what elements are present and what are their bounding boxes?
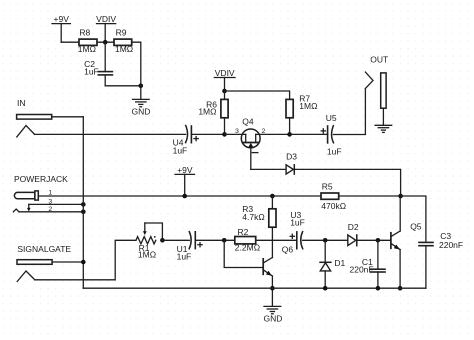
svg-text:220nF: 220nF [350,265,374,275]
jack SIGNALGATE [17,244,71,282]
wire [195,239,235,241]
wire [225,91,290,99]
wire pin3 [29,203,84,205]
capacitor C2 1uF [84,42,112,86]
svg-text:GND: GND [263,314,282,324]
junction [160,238,165,243]
svg-text:R8: R8 [79,28,90,38]
wire [97,41,114,43]
junction [103,40,108,45]
svg-text:POWERJACK: POWERJACK [14,174,68,184]
potentiometer R1 1MΩ [136,223,162,260]
svg-text:2.2MΩ: 2.2MΩ [235,243,260,253]
resistor R9 1MΩ [114,28,133,55]
svg-text:1uF: 1uF [84,67,99,77]
resistor R8 1MΩ [78,28,97,55]
junction [81,260,86,265]
jack OUT [365,54,388,124]
capacitor U4 1uF [173,126,199,156]
wire [191,133,224,135]
svg-text:OUT: OUT [370,54,388,64]
transistor Q5 [391,196,422,288]
svg-text:VDIV: VDIV [96,14,116,24]
capacitor C1 220nF [350,240,386,288]
transistor Q6 [263,244,293,288]
svg-text:1MΩ: 1MΩ [198,106,216,116]
junction [323,238,328,243]
wire ground bus vertical [82,117,84,288]
svg-text:D2: D2 [348,222,359,232]
svg-text:R2: R2 [238,227,249,237]
resistor R3 4.7kΩ [242,196,276,258]
wire [61,41,79,43]
wire pin1 +9V rail [38,195,400,197]
junction [270,286,275,291]
svg-text:SIGNALGATE: SIGNALGATE [17,244,71,254]
junction [287,132,292,137]
wire [333,89,365,135]
svg-text:GND: GND [132,107,151,117]
power symbol +9V (top left) [52,14,70,42]
svg-text:1MΩ: 1MΩ [299,101,317,111]
svg-text:1MΩ: 1MΩ [78,44,96,54]
wire [35,133,186,135]
junction [139,84,144,89]
svg-text:220nF: 220nF [439,240,463,250]
jack IN [17,98,84,137]
junction [270,194,275,199]
svg-text:+9V: +9V [54,14,70,24]
svg-text:+9V: +9V [177,165,193,175]
wire [294,169,400,196]
junction [81,210,86,215]
svg-text:1uF: 1uF [290,217,305,227]
svg-text:Q4: Q4 [242,116,254,126]
wire to Q6 base [224,240,263,267]
ground (at OUT) [375,125,392,132]
svg-text:1uF: 1uF [177,252,192,262]
svg-text:470kΩ: 470kΩ [321,201,346,211]
jack POWERJACK [13,174,68,213]
transistor Q4 (pins 3,2) [225,116,290,169]
ground (top) [132,86,151,117]
capacitor U5 1uF [321,113,341,156]
wire ground bus bottom [83,287,426,289]
wire [357,239,391,241]
wire [105,85,141,87]
svg-text:1MΩ: 1MΩ [138,250,156,260]
junction [222,132,227,137]
wire [290,133,328,135]
diode D2 [348,222,359,246]
svg-text:1uF: 1uF [173,145,188,155]
capacitor C3 220nF [419,231,463,288]
node VDIV (top power symbol) [96,14,116,42]
power symbol +9V (middle) [175,165,194,196]
wire signal tip to R1 [35,240,136,279]
capacitor U1 1uF [177,232,203,262]
junction [323,286,328,291]
junction [81,202,86,207]
resistor R2 2.2MΩ [235,227,260,253]
svg-text:R5: R5 [322,182,333,192]
wire pin2 [19,211,83,213]
svg-text:1: 1 [48,189,52,196]
junction [182,194,187,199]
junction [222,238,227,243]
node VDIV (middle power symbol) [214,68,235,91]
wire [303,239,348,241]
svg-text:4.7kΩ: 4.7kΩ [242,212,264,222]
diode D1 [320,240,346,288]
ground (below Q6) [263,288,282,323]
wire [132,42,141,86]
resistor R6 1MΩ [198,91,228,134]
svg-text:1MΩ: 1MΩ [115,44,133,54]
svg-text:Q5: Q5 [410,221,422,231]
wire Q4 source to D3 [251,168,286,170]
svg-text:U5: U5 [326,113,337,123]
wire [52,261,83,263]
resistor R7 1MΩ [286,94,317,135]
wire [162,239,189,241]
junction [398,286,403,291]
wire [256,239,297,241]
svg-text:D3: D3 [286,152,297,162]
junction [222,89,227,94]
svg-text:R9: R9 [116,28,127,38]
resistor R5 470kΩ [321,182,346,211]
svg-text:D1: D1 [334,258,345,268]
junction [376,238,381,243]
svg-text:VDIV: VDIV [215,68,235,78]
junction [398,194,403,199]
capacitor U3 1uF [290,210,305,249]
junction [376,286,381,291]
svg-text:1uF: 1uF [327,147,342,157]
diode D3 [286,152,297,175]
svg-text:IN: IN [17,98,26,108]
wire to C3 [401,196,426,242]
svg-text:Q6: Q6 [282,244,294,254]
